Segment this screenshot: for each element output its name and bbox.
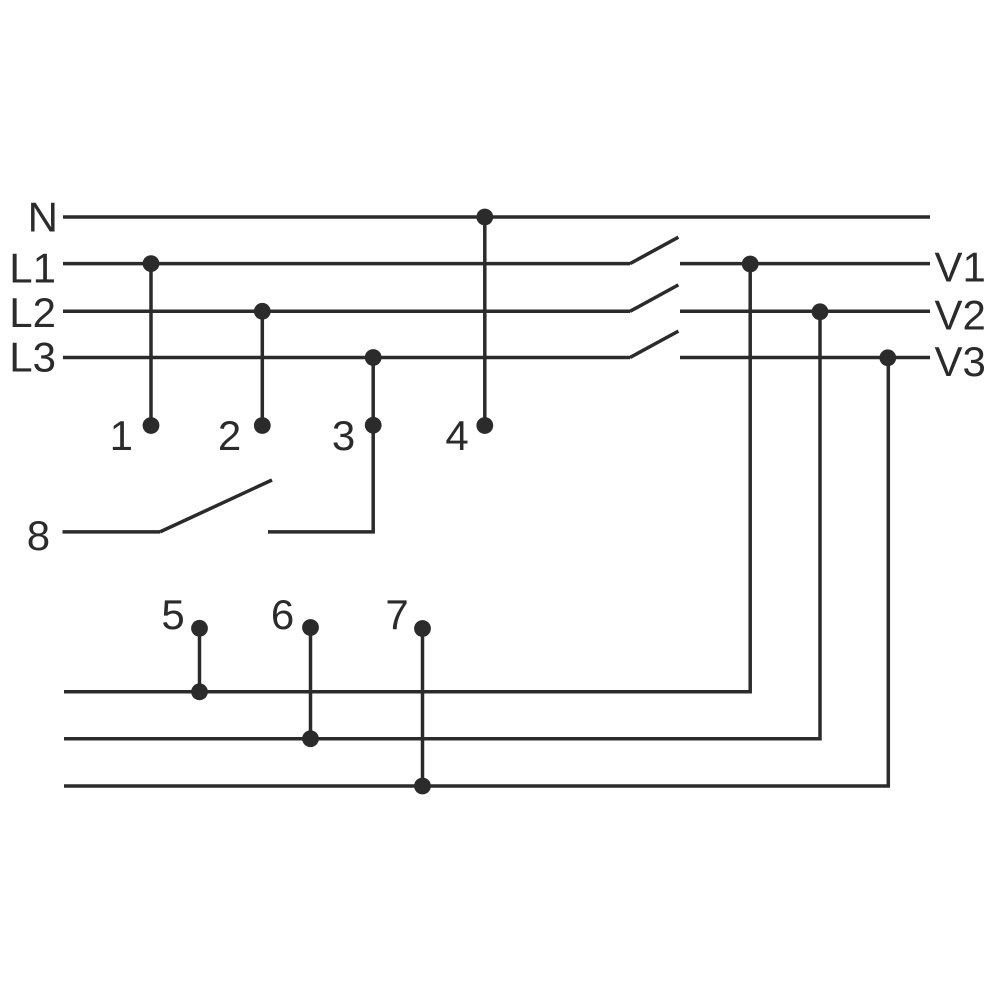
svg-text:N: N	[28, 194, 58, 241]
svg-text:7: 7	[385, 591, 408, 638]
svg-text:4: 4	[445, 412, 468, 459]
svg-text:1: 1	[110, 412, 133, 459]
svg-text:L1: L1	[9, 245, 56, 292]
svg-text:L3: L3	[9, 334, 56, 381]
svg-text:L2: L2	[9, 289, 56, 336]
svg-text:5: 5	[161, 591, 184, 638]
svg-text:6: 6	[271, 591, 294, 638]
svg-text:V3: V3	[935, 338, 986, 385]
svg-text:V1: V1	[935, 243, 986, 290]
svg-text:3: 3	[332, 412, 355, 459]
svg-text:V2: V2	[935, 292, 986, 339]
svg-text:8: 8	[27, 512, 50, 559]
svg-text:2: 2	[218, 412, 241, 459]
